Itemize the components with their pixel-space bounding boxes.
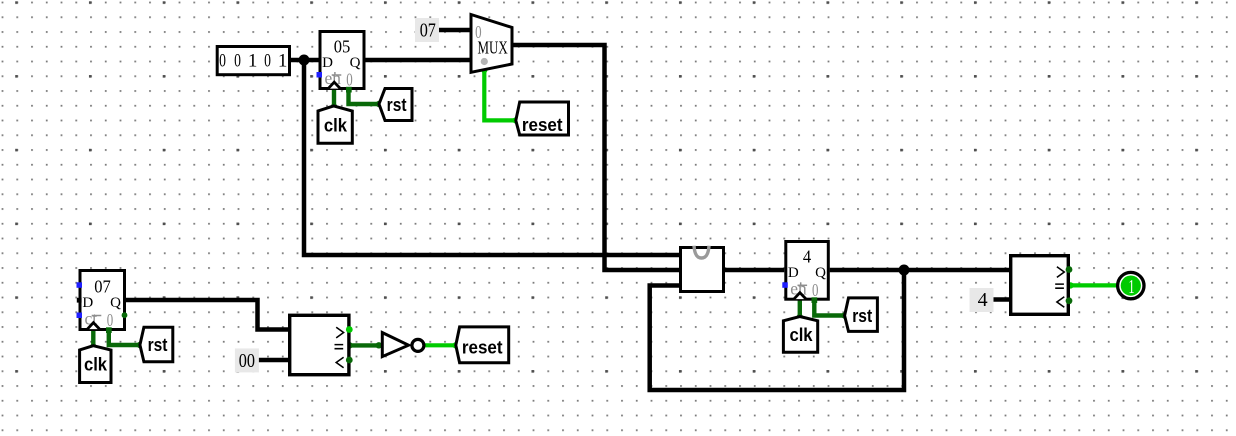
svg-text:0: 0 [264, 49, 271, 71]
svg-text:4: 4 [803, 247, 812, 267]
svg-text:07: 07 [420, 19, 436, 41]
svg-text:clk: clk [324, 115, 347, 136]
svg-text:Q: Q [110, 295, 121, 311]
svg-text:1: 1 [278, 50, 288, 71]
svg-text:4: 4 [978, 289, 988, 311]
svg-text:0: 0 [219, 49, 226, 71]
svg-text:clk: clk [84, 354, 107, 375]
svg-text:clk: clk [789, 324, 812, 345]
svg-text:05: 05 [334, 37, 351, 57]
svg-text:reset: reset [462, 337, 503, 358]
svg-text:Q: Q [350, 55, 361, 71]
svg-text:rst: rst [387, 95, 407, 116]
svg-text:1: 1 [1128, 275, 1134, 298]
svg-text:reset: reset [522, 114, 563, 135]
svg-text:07: 07 [94, 277, 111, 297]
svg-text:MUX: MUX [478, 39, 508, 58]
svg-text:Q: Q [815, 265, 826, 281]
svg-text:00: 00 [239, 349, 255, 371]
svg-text:rst: rst [852, 306, 872, 327]
svg-text:0: 0 [234, 49, 241, 71]
svg-text:1: 1 [248, 50, 258, 71]
svg-text:rst: rst [148, 335, 168, 356]
